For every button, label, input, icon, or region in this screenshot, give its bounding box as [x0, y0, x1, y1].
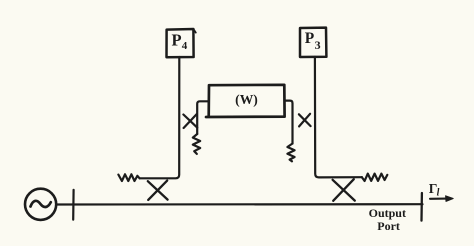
- directional coupler X1 (left, on main line): [148, 181, 168, 200]
- svg-text:3: 3: [315, 38, 321, 52]
- svg-text:P: P: [305, 30, 315, 47]
- wire: left sidearm up to P4: [140, 57, 180, 178]
- matched load R2 (vertical zigzag under left lead): [193, 134, 200, 154]
- matched load R4 (right sidearm termination, horizontal zigzag): [362, 174, 387, 181]
- matched load R1 (left sidearm termination, horizontal zigzag): [118, 174, 139, 181]
- wire: (W) left lead: [197, 101, 209, 134]
- wire: (W) right lead: [285, 101, 293, 144]
- directional coupler X2 (right, on main line): [333, 179, 355, 201]
- svg-text:(W): (W): [235, 92, 258, 108]
- matched load R3 (vertical zigzag under right lead): [287, 144, 294, 162]
- arrow: Γl looking direction: [430, 196, 453, 202]
- svg-text:4: 4: [182, 40, 188, 52]
- svg-text:l: l: [437, 187, 440, 198]
- svg-text:P: P: [172, 30, 182, 49]
- output port bar: [420, 193, 423, 221]
- svg-text:Output: Output: [369, 206, 406, 220]
- label P3: [305, 30, 321, 52]
- two-port (W) box U1: [206, 85, 285, 117]
- node Γl (reflection coefficient label): [429, 181, 440, 198]
- label P4: [172, 30, 188, 52]
- svg-text:Port: Port: [377, 219, 400, 233]
- label Output Port: [369, 206, 406, 233]
- reference-plane tick (left): [72, 190, 75, 220]
- generator G (AC source circle): [25, 189, 56, 220]
- power meter P3 box: [300, 28, 326, 57]
- wire: main transmission line: [57, 203, 423, 206]
- directional coupler X3 (upper left): [183, 114, 197, 128]
- power meter P4 box: [167, 29, 196, 57]
- directional coupler X4 (upper right): [299, 114, 311, 127]
- wire: right sidearm from P3: [315, 57, 362, 178]
